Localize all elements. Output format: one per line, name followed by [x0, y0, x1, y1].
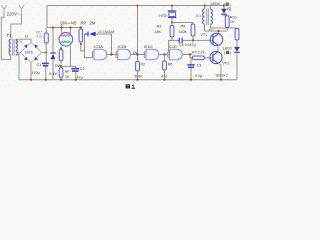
resistor R10: [225, 16, 229, 28]
node R6 ground: [163, 79, 165, 81]
wire C1 bottom: [45, 67, 47, 80]
svg-text:RP: RP: [65, 70, 71, 74]
capacitor C4: [179, 38, 182, 43]
svg-text:C3: C3: [197, 63, 202, 67]
svg-text:U: U: [25, 34, 28, 39]
wire LED4 to R10: [224, 15, 227, 16]
wire IC1B output: [131, 54, 146, 56]
wire LED1 to ground rail: [236, 53, 238, 80]
node IC1C out: [163, 53, 165, 55]
wire tap to C2: [61, 66, 76, 68]
node C3 ground: [190, 79, 192, 81]
sensor heater top: [61, 35, 71, 37]
wire rail drop to heater bus: [46, 6, 48, 28]
transistor VT1: [210, 33, 222, 45]
transistor VT2: [210, 51, 222, 63]
node pin bottom-left: [60, 48, 62, 50]
resistor R7: [192, 56, 204, 60]
resistor heater upper: [59, 50, 63, 61]
resistor R8 output column: [235, 29, 239, 41]
node pin top-left: [60, 26, 62, 28]
caption figure 1: [126, 84, 135, 88]
label red4: [224, 3, 231, 7]
svg-text:R3: R3: [157, 25, 162, 29]
wire zener bottom: [52, 59, 54, 79]
svg-text:VD: VD: [98, 30, 103, 34]
gate IC1B inputs: [116, 52, 118, 58]
transformer T2 secondary winding: [211, 9, 213, 24]
node R9 bottom: [192, 39, 194, 41]
wire IC1C output: [159, 54, 169, 56]
svg-text:18K: 18K: [155, 30, 162, 34]
gate IC1D: [170, 49, 183, 60]
piezo HTD wire: [171, 6, 173, 12]
wire C3 drop: [190, 58, 192, 65]
wire R6 top: [164, 55, 166, 62]
wire diode to feedback node: [96, 34, 112, 55]
svg-text:R6: R6: [168, 63, 173, 67]
node pin top-right: [69, 26, 71, 28]
svg-text:1K: 1K: [65, 75, 70, 79]
wire C3 ground: [190, 68, 192, 80]
svg-text:560K: 560K: [134, 75, 143, 79]
svg-text:R7 2.2K: R7 2.2K: [192, 51, 206, 55]
wire T2 primary bottom to VT1 collector: [205, 24, 228, 34]
svg-text:IC1C: IC1C: [144, 44, 153, 49]
node IC1A out: [110, 53, 112, 55]
svg-text:R2: R2: [141, 63, 146, 67]
node C1 ground: [45, 79, 47, 81]
node VT2 ground: [220, 79, 222, 81]
LED LED1: [234, 47, 240, 52]
wire sensor pin top-left: [61, 28, 63, 34]
svg-text:130K: 130K: [179, 30, 188, 34]
gas sensor body: [59, 33, 73, 47]
bridge diode bottom-right: [35, 57, 39, 60]
gate IC1B: [118, 49, 131, 60]
LED LED4: [221, 9, 227, 14]
transformer T1 secondary winding: [16, 40, 18, 55]
wire R8 to LED1: [236, 40, 238, 47]
svg-text:VT2: VT2: [222, 62, 229, 66]
wire zener column top: [52, 28, 54, 54]
wire bottom ground rail: [19, 79, 237, 81]
diode VD: [85, 32, 89, 37]
svg-text:C1: C1: [37, 63, 42, 67]
gate IC1D inputs: [168, 52, 170, 58]
resistor R9: [191, 24, 195, 36]
svg-text:470µ: 470µ: [32, 71, 41, 75]
transformer T1 core: [13, 39, 14, 56]
node tap: [60, 65, 62, 67]
node HTD rail: [171, 5, 173, 7]
wire ground rail left upturn: [18, 55, 20, 80]
svg-text:IC1B: IC1B: [118, 44, 127, 49]
node R2 ground: [136, 79, 138, 81]
node RP top: [80, 26, 82, 28]
svg-text:2M: 2M: [90, 21, 96, 26]
plug prong right: [19, 5, 24, 14]
svg-text:LED4: LED4: [211, 2, 220, 6]
svg-text:HTD: HTD: [159, 14, 167, 18]
wire VT2 emitter to ground: [218, 63, 221, 79]
svg-text:R10: R10: [230, 16, 236, 20]
wire R7 to VT2 base: [204, 57, 213, 59]
svg-text:3.9: 3.9: [36, 34, 41, 38]
svg-text:5.1V: 5.1V: [49, 72, 57, 76]
wire rail feed column: [137, 6, 139, 62]
svg-text:R9: R9: [181, 25, 186, 29]
svg-text:1A05: 1A05: [24, 51, 32, 55]
wire secondary top to bridge top: [16, 39, 31, 42]
transformer T1 primary winding: [9, 40, 11, 55]
node resistor ground: [60, 79, 62, 81]
resistor R1: [44, 33, 48, 43]
svg-text:T1: T1: [7, 33, 13, 38]
node bridge right: [45, 51, 47, 53]
wire RP top: [80, 28, 82, 30]
svg-text:LED1: LED1: [223, 47, 232, 51]
sensor heater bottom: [61, 41, 71, 43]
wire between stacked resistors: [60, 61, 62, 68]
wire R6 bottom: [164, 70, 166, 80]
resistor R6: [163, 61, 167, 70]
wire R9 bottom: [192, 36, 194, 40]
svg-text:RP: RP: [81, 21, 87, 26]
resistor heater lower: [59, 68, 63, 78]
node collector join: [218, 30, 220, 32]
wire RP bottom jog to gate input: [81, 34, 93, 58]
wire lower resistor to ground: [60, 77, 62, 80]
label red1: [224, 51, 231, 55]
gate IC1A: [94, 49, 107, 60]
transformer T2 core: [207, 9, 209, 26]
svg-text:47µ: 47µ: [77, 75, 84, 79]
transformer T2 primary winding: [203, 9, 205, 24]
wire sensor pin bottom-left: [60, 46, 62, 50]
wire R2 bottom: [137, 71, 139, 80]
capacitor C2: [71, 69, 79, 71]
node HTD bottom: [171, 21, 173, 23]
wire R3 top: [171, 23, 173, 26]
wire C2 to ground: [75, 72, 77, 80]
wire R1 top: [45, 28, 47, 34]
node IC1D out: [189, 53, 191, 55]
node rail feed top: [137, 5, 139, 7]
wire 220V live lead: [1, 14, 11, 60]
node C2 ground: [75, 79, 77, 81]
svg-text:1N4148: 1N4148: [103, 30, 114, 34]
bridge rectifier outline: [20, 43, 42, 63]
wire T2 primary top to rail: [204, 6, 206, 10]
wire LED4 top: [223, 6, 225, 9]
bridge diode bottom-left: [24, 57, 28, 60]
wire IC1A output: [106, 54, 118, 56]
svg-text:QM—N5: QM—N5: [60, 21, 77, 26]
svg-text:9013×2: 9013×2: [216, 73, 228, 77]
wire bridge bottom to ground rail: [30, 63, 32, 80]
wire C4 loop to IC1D input: [169, 40, 173, 52]
svg-text:0.1µ: 0.1µ: [195, 74, 202, 78]
wire C4 to VT1 base: [182, 39, 213, 41]
svg-text:C2: C2: [80, 67, 85, 71]
svg-text:220V~: 220V~: [7, 12, 21, 17]
plug prong left: [2, 5, 7, 14]
capacitor C3: [187, 65, 194, 67]
node bridge ground: [30, 79, 32, 81]
svg-text:): ): [230, 3, 231, 7]
node T2 rail: [204, 4, 206, 6]
wire sensor pin top-right: [70, 28, 72, 34]
zener diode DW: [50, 52, 55, 54]
wire secondary bottom to bridge left: [16, 53, 21, 56]
wire HTD bottom to R9: [172, 18, 193, 24]
svg-text:1K: 1K: [230, 20, 235, 24]
node LED4 rail: [223, 4, 225, 6]
potentiometer RP: [79, 29, 83, 42]
capacitor C1: [42, 63, 49, 65]
wire T2 secondary bottom to output column: [211, 24, 238, 28]
wire heater bus: [47, 27, 81, 29]
wire T2 secondary top to rail: [210, 6, 212, 10]
svg-text:3.7V: 3.7V: [15, 40, 23, 44]
gate IC1C inputs: [144, 52, 146, 58]
wire R10 bottom to collector node: [226, 28, 228, 32]
resistor R2: [136, 62, 140, 72]
svg-text:C4 0.047µ: C4 0.047µ: [179, 43, 196, 47]
wire sensor pin bottom-right: [70, 46, 72, 66]
wire bridge right to C1 column: [42, 52, 46, 54]
bridge diode top-right: [35, 45, 39, 48]
wire IC1D output: [183, 54, 193, 56]
wire VT1 emitter to VT2 collector: [217, 45, 219, 52]
node R2 tap: [136, 53, 138, 55]
wire 220V neutral lead: [11, 14, 22, 40]
svg-text:): ): [230, 51, 231, 55]
node RP bottom: [80, 43, 82, 45]
svg-text:IC1D: IC1D: [168, 44, 177, 49]
svg-text:IC1A: IC1A: [94, 44, 103, 49]
resistor R3: [170, 26, 174, 38]
node zener tap: [52, 26, 54, 28]
gate IC1C: [146, 49, 159, 60]
bridge diode top-left: [24, 45, 28, 48]
gate IC1A inputs: [93, 52, 95, 58]
svg-text:VT1: VT1: [201, 33, 208, 37]
wire top V+ rail: [47, 5, 224, 7]
wire R1 bottom to C1: [45, 43, 47, 63]
wire R3 bottom to C4: [172, 37, 179, 40]
wire IC1D out to R7: [190, 55, 192, 58]
piezo HTD: [168, 10, 176, 12]
